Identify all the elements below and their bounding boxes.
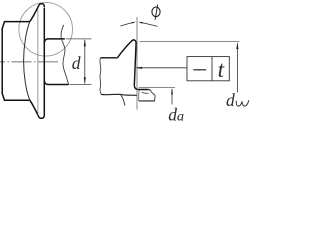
vertical reference line (phi datum) xyxy=(136,17,138,110)
flange chunk bottom break xyxy=(101,94,137,95)
shank bottom edge with fillet xyxy=(44,81,68,85)
d_a extension line xyxy=(139,86,175,88)
hex-flange blend arc xyxy=(24,22,30,101)
detail circle xyxy=(19,2,73,56)
shank chunk right break xyxy=(149,90,155,101)
shank top edge with fillet xyxy=(44,39,65,43)
under-head fillet and shank edge (detail) xyxy=(134,86,148,90)
d_w extension line xyxy=(140,41,240,43)
dimension line d xyxy=(84,40,86,83)
bearing face (detail, tilted by angle phi) xyxy=(134,43,136,86)
shank internal break squiggle xyxy=(142,92,149,93)
flange chunk left break (wavy) xyxy=(100,58,101,95)
bottom break tail xyxy=(121,94,125,105)
leader line to bearing face xyxy=(137,67,187,69)
angle phi left leg xyxy=(120,22,133,26)
hex head outline xyxy=(2,22,30,101)
hex edge (detail) xyxy=(101,57,118,59)
tolerance frame xyxy=(187,57,229,81)
shank chunk bottom break xyxy=(139,100,155,102)
d_w dimension arrow xyxy=(236,44,238,93)
bearing face edge (flange rim, left view) xyxy=(43,8,45,116)
flange top contour xyxy=(30,4,45,22)
angle phi right leg xyxy=(140,22,157,26)
shank chunk left break xyxy=(138,90,141,101)
d_a dimension arrow xyxy=(171,89,173,105)
center line (axis) xyxy=(0,61,60,63)
shank break line xyxy=(61,25,69,85)
extension line bottom (d) xyxy=(70,84,92,86)
flange bottom contour xyxy=(30,100,45,118)
flange cone curve (detail) xyxy=(118,40,137,58)
svg-text:t: t xyxy=(218,57,225,82)
svg-text:a: a xyxy=(177,110,184,125)
svg-text:d: d xyxy=(226,90,235,110)
label phi xyxy=(152,7,160,17)
straightness symbol xyxy=(193,69,206,71)
svg-text:d: d xyxy=(72,53,81,73)
extension line top (d) xyxy=(66,38,91,40)
cone/rim edge circle (thin vertical) xyxy=(37,8,39,117)
